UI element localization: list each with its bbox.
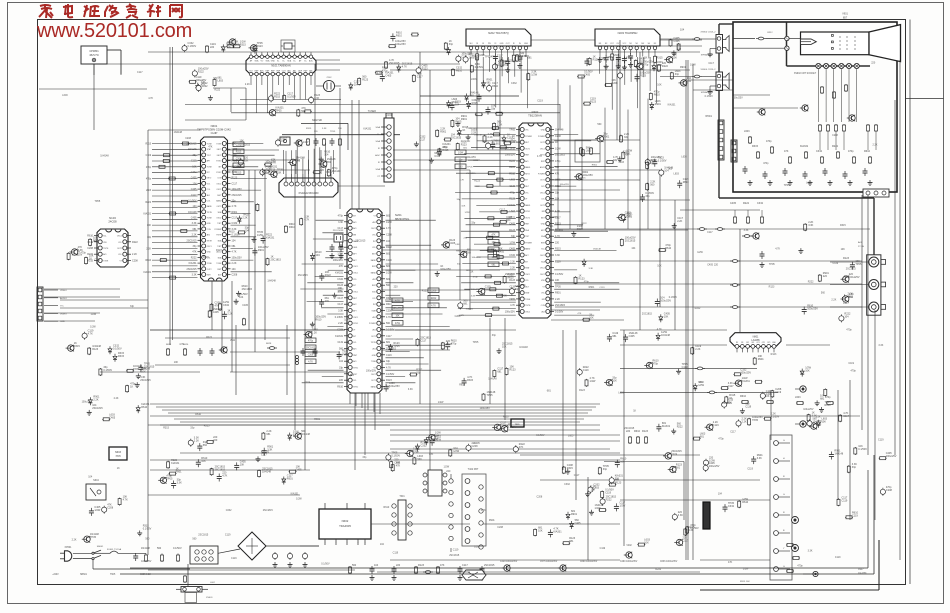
svg-text:1N4148: 1N4148	[429, 438, 438, 441]
svg-text:SB601: SB601	[80, 574, 88, 576]
svg-text:C117: C117	[843, 415, 849, 418]
svg-text:V901: V901	[842, 13, 848, 16]
svg-text:1N4148: 1N4148	[520, 55, 529, 58]
svg-text:C117: C117	[507, 136, 513, 139]
svg-text:C119: C119	[146, 155, 152, 157]
svg-text:C117: C117	[232, 217, 238, 220]
svg-text:TP05: TP05	[90, 536, 97, 539]
svg-text:C117: C117	[261, 453, 267, 456]
svg-text:220: 220	[446, 470, 451, 473]
svg-text:KIA331: KIA331	[742, 380, 751, 383]
svg-text:0.1/50V: 0.1/50V	[536, 434, 545, 437]
svg-text:1/2W: 1/2W	[344, 319, 350, 322]
svg-text:220: 220	[871, 61, 876, 64]
svg-text:R123: R123	[92, 348, 99, 351]
svg-text:OSC1: OSC1	[525, 274, 530, 276]
svg-text:R315: R315	[580, 178, 586, 180]
svg-text:2SC1815: 2SC1815	[722, 402, 733, 405]
svg-text:0.1/50V: 0.1/50V	[555, 311, 564, 314]
svg-text:AV2: AV2	[373, 221, 376, 224]
svg-text:BAND: BAND	[216, 200, 222, 203]
svg-text:33p: 33p	[491, 108, 496, 111]
svg-text:TP05: TP05	[330, 131, 336, 133]
svg-text:470p: 470p	[650, 162, 656, 165]
svg-text:47K: 47K	[728, 561, 733, 564]
svg-text:C208: C208	[832, 134, 838, 137]
svg-text:KIA331: KIA331	[800, 145, 809, 148]
svg-text:N203 TDA8359J: N203 TDA8359J	[618, 31, 638, 35]
svg-text:470p: 470p	[308, 341, 314, 343]
svg-text:KIA331: KIA331	[143, 213, 151, 216]
svg-text:2SC1815: 2SC1815	[498, 64, 509, 67]
svg-text:C405: C405	[584, 74, 591, 77]
svg-text:OSC1: OSC1	[540, 192, 545, 194]
svg-text:TR/TE: TR/TE	[207, 240, 213, 242]
svg-text:Z201 503F: Z201 503F	[333, 230, 344, 232]
svg-text:2SC1815: 2SC1815	[232, 194, 243, 197]
svg-text:R610: R610	[492, 85, 499, 88]
svg-text:2SC1815: 2SC1815	[242, 288, 253, 291]
svg-text:POWER: POWER	[525, 243, 532, 245]
svg-text:SCL: SCL	[541, 249, 545, 251]
svg-text:TONE: TONE	[103, 261, 109, 263]
svg-text:OSC1: OSC1	[540, 148, 545, 150]
svg-text:100u/25V: 100u/25V	[265, 161, 276, 164]
svg-text:2.2K: 2.2K	[93, 398, 98, 401]
svg-text:100u/25V: 100u/25V	[232, 188, 243, 191]
svg-text:R901: R901	[489, 519, 495, 522]
svg-text:1/2W: 1/2W	[90, 326, 96, 329]
svg-text:2.2K: 2.2K	[192, 234, 197, 237]
svg-text:1/2W: 1/2W	[590, 380, 596, 383]
svg-text:R315: R315	[306, 128, 312, 130]
svg-text:560: 560	[668, 168, 673, 171]
svg-text:R610: R610	[665, 247, 672, 250]
svg-text:LA4285: LA4285	[751, 339, 760, 342]
svg-text:3.3K: 3.3K	[342, 352, 347, 355]
svg-text:100u/25V: 100u/25V	[395, 43, 406, 46]
svg-text:33p: 33p	[613, 159, 618, 162]
svg-text:L603: L603	[62, 94, 68, 97]
svg-text:KIA331: KIA331	[291, 492, 300, 495]
svg-text:R315: R315	[386, 297, 392, 300]
svg-text:AGC: AGC	[309, 60, 314, 63]
svg-text:KIA331: KIA331	[553, 530, 562, 533]
svg-text:VOL: VOL	[372, 235, 376, 237]
svg-text:560: 560	[849, 296, 854, 299]
svg-text:OUT1: OUT1	[371, 336, 376, 338]
svg-text:4.7K: 4.7K	[657, 328, 662, 331]
svg-text:560: 560	[192, 537, 197, 540]
svg-text:R315: R315	[657, 56, 664, 59]
svg-text:R315: R315	[146, 144, 152, 146]
svg-text:R610: R610	[384, 506, 390, 509]
svg-text:104: 104	[281, 140, 286, 143]
svg-text:4.7K: 4.7K	[431, 306, 436, 308]
svg-text:SYNC: SYNC	[525, 211, 531, 213]
svg-text:AV1: AV1	[353, 360, 356, 363]
svg-text:C119: C119	[745, 405, 751, 408]
svg-text:220: 220	[626, 430, 631, 433]
svg-text:0.1/50V: 0.1/50V	[103, 369, 112, 372]
svg-text:3.3K: 3.3K	[192, 222, 197, 225]
svg-text:1/2W: 1/2W	[94, 509, 100, 512]
svg-text:SYNC: SYNC	[216, 172, 222, 174]
svg-text:104: 104	[232, 268, 237, 271]
svg-text:AV1: AV1	[353, 221, 356, 224]
svg-text:0.1/50V: 0.1/50V	[335, 316, 344, 319]
svg-text:104: 104	[631, 247, 636, 250]
svg-text:4.7K: 4.7K	[395, 301, 400, 303]
svg-text:ADC0: ADC0	[540, 166, 545, 169]
svg-text:470p: 470p	[338, 215, 344, 218]
svg-text:1K: 1K	[644, 57, 647, 60]
svg-text:C917: C917	[858, 569, 864, 571]
svg-text:100u/25V: 100u/25V	[582, 174, 593, 177]
svg-text:33p: 33p	[416, 372, 421, 375]
svg-text:GND: GND	[271, 61, 276, 63]
svg-text:R901: R901	[571, 513, 578, 516]
svg-text:R222: R222	[677, 426, 684, 429]
svg-text:C405: C405	[629, 335, 636, 338]
svg-text:3.3K: 3.3K	[471, 296, 476, 298]
svg-text:APC: APC	[260, 70, 265, 73]
svg-text:OP1: OP1	[762, 342, 765, 344]
svg-text:L603: L603	[618, 392, 624, 395]
svg-text:1K: 1K	[470, 271, 473, 274]
svg-text:KIA331: KIA331	[662, 425, 671, 428]
svg-text:AV2: AV2	[373, 278, 376, 281]
svg-text:TP05: TP05	[95, 200, 101, 203]
svg-text:TR/TE: TR/TE	[371, 342, 377, 344]
svg-text:C332: C332	[509, 254, 515, 257]
svg-text:560: 560	[352, 564, 357, 567]
svg-text:2.2K: 2.2K	[72, 538, 77, 541]
svg-text:C405: C405	[474, 442, 480, 445]
svg-text:560: 560	[467, 252, 472, 255]
svg-text:OUT2: OUT2	[540, 142, 545, 144]
svg-text:2SC1815: 2SC1815	[389, 62, 400, 65]
svg-text:R123: R123	[769, 285, 775, 288]
svg-text:4.7K: 4.7K	[386, 316, 391, 319]
svg-text:47K: 47K	[491, 235, 496, 237]
svg-text:R315: R315	[274, 95, 281, 98]
svg-text:RF: RF	[741, 342, 743, 344]
svg-text:N102 SIF: N102 SIF	[312, 119, 323, 122]
svg-text:10K: 10K	[538, 529, 543, 532]
svg-text:PW: PW	[488, 43, 491, 45]
svg-text:C332: C332	[236, 145, 242, 147]
svg-text:R915 10K: R915 10K	[740, 581, 750, 583]
svg-text:R901: R901	[287, 478, 294, 481]
svg-text:1/2W: 1/2W	[386, 272, 392, 275]
svg-text:SYNC: SYNC	[353, 323, 359, 325]
svg-text:~220V: ~220V	[52, 574, 59, 576]
svg-text:TB1238AN: TB1238AN	[528, 113, 542, 117]
svg-text:47K: 47K	[208, 146, 213, 149]
svg-text:2.2K: 2.2K	[312, 332, 317, 335]
svg-text:R222: R222	[386, 246, 392, 249]
svg-text:0.1/50V: 0.1/50V	[550, 216, 559, 219]
svg-text:V402: V402	[626, 545, 632, 547]
svg-text:1/2W: 1/2W	[257, 234, 263, 237]
svg-text:COL: COL	[207, 189, 211, 191]
svg-text:L603: L603	[218, 80, 224, 83]
svg-text:560: 560	[650, 184, 655, 187]
svg-text:C405: C405	[394, 462, 401, 465]
svg-text:C208: C208	[94, 258, 100, 261]
svg-text:OSC1: OSC1	[207, 246, 212, 248]
svg-text:47K: 47K	[396, 465, 401, 468]
svg-text:2SC1815: 2SC1815	[198, 533, 209, 536]
svg-text:10K: 10K	[147, 225, 152, 227]
svg-text:1N4148: 1N4148	[519, 346, 528, 349]
svg-text:100u/25V: 100u/25V	[560, 184, 570, 186]
svg-text:0.1/50V: 0.1/50V	[771, 416, 780, 419]
svg-text:OUT2: OUT2	[217, 206, 222, 208]
svg-text:2.2K: 2.2K	[816, 415, 821, 418]
svg-text:C117: C117	[462, 564, 468, 567]
svg-text:104: 104	[435, 435, 440, 438]
svg-text:R610: R610	[503, 415, 509, 418]
svg-text:ABL: ABL	[287, 70, 291, 73]
svg-text:R123: R123	[422, 290, 428, 293]
svg-text:C117: C117	[191, 194, 197, 197]
svg-text:R222: R222	[146, 202, 152, 204]
svg-text:681: 681	[497, 371, 502, 374]
svg-text:470p: 470p	[382, 70, 388, 73]
svg-text:C208: C208	[232, 274, 238, 277]
svg-text:104: 104	[374, 564, 379, 567]
svg-text:681: 681	[232, 245, 237, 248]
svg-text:560: 560	[296, 159, 301, 162]
svg-text:R123: R123	[642, 430, 649, 433]
svg-text:C405: C405	[296, 469, 303, 472]
svg-text:681: 681	[569, 540, 574, 543]
svg-text:C405: C405	[730, 202, 737, 205]
svg-text:C117: C117	[419, 139, 425, 142]
svg-text:R901: R901	[326, 171, 332, 174]
svg-text:XS904 CXD1-2: XS904 CXD1-2	[701, 69, 717, 71]
svg-text:R901: R901	[548, 225, 554, 228]
svg-text:47K: 47K	[460, 315, 464, 317]
svg-text:2.2K: 2.2K	[831, 299, 836, 302]
svg-text:ABL: ABL	[293, 70, 297, 73]
svg-text:SPEAKER R: SPEAKER R	[701, 54, 714, 57]
svg-text:2SC1815: 2SC1815	[140, 379, 151, 382]
svg-text:C332: C332	[223, 304, 230, 307]
svg-text:C405: C405	[385, 75, 392, 78]
svg-text:R222: R222	[206, 336, 212, 339]
svg-text:1N4148: 1N4148	[661, 334, 670, 337]
svg-text:R901: R901	[176, 471, 183, 474]
svg-text:10K: 10K	[805, 370, 810, 373]
svg-text:TP05: TP05	[784, 184, 790, 187]
svg-text:100u/25V: 100u/25V	[849, 276, 860, 279]
svg-text:470p: 470p	[473, 276, 479, 278]
svg-text:BAND: BAND	[525, 166, 531, 169]
svg-text:XS904 CXD1-2: XS904 CXD1-2	[701, 32, 717, 34]
svg-text:C119: C119	[337, 341, 343, 344]
svg-text:AV2: AV2	[373, 316, 376, 319]
svg-text:OSC2: OSC2	[371, 228, 376, 230]
svg-text:COL: COL	[207, 201, 211, 203]
svg-text:104: 104	[232, 239, 237, 242]
svg-text:AV2: AV2	[218, 274, 221, 277]
svg-text:1N4148: 1N4148	[593, 249, 601, 251]
svg-text:SYNC: SYNC	[353, 387, 359, 389]
svg-text:1N4148: 1N4148	[488, 377, 497, 380]
svg-text:4.7K: 4.7K	[510, 304, 515, 307]
svg-text:1N4148: 1N4148	[301, 433, 310, 436]
svg-text:XP901: XP901	[705, 116, 713, 118]
svg-text:C208: C208	[386, 310, 392, 313]
svg-text:220: 220	[555, 242, 560, 245]
svg-text:2.2K: 2.2K	[695, 348, 700, 351]
svg-text:C332: C332	[226, 509, 232, 512]
svg-text:TP05: TP05	[394, 345, 401, 348]
svg-text:N602: N602	[342, 519, 349, 523]
svg-text:C332: C332	[757, 202, 764, 205]
svg-text:L603: L603	[471, 78, 477, 81]
svg-text:0.1/50V: 0.1/50V	[690, 527, 699, 530]
svg-text:2.2K: 2.2K	[245, 83, 250, 86]
svg-text:VOL: VOL	[353, 279, 357, 281]
svg-text:TR/TE: TR/TE	[103, 248, 109, 250]
svg-text:R222: R222	[132, 241, 138, 244]
svg-text:470p: 470p	[146, 167, 152, 169]
svg-text:560: 560	[157, 547, 162, 550]
svg-text:C405: C405	[109, 416, 116, 419]
svg-text:COL: COL	[372, 298, 376, 300]
svg-text:C117: C117	[137, 71, 143, 74]
svg-text:100u/25V: 100u/25V	[389, 385, 400, 388]
svg-text:R610: R610	[337, 386, 343, 389]
svg-text:R123: R123	[640, 75, 647, 78]
svg-text:C119: C119	[304, 381, 310, 384]
svg-text:C119: C119	[386, 354, 392, 357]
svg-text:10K: 10K	[277, 171, 282, 174]
svg-text:R315: R315	[467, 379, 474, 382]
svg-text:2.2K: 2.2K	[510, 267, 515, 270]
svg-text:C119: C119	[848, 362, 854, 365]
svg-text:33p: 33p	[492, 334, 497, 337]
svg-text:4.7K: 4.7K	[386, 367, 391, 370]
svg-text:AV2: AV2	[207, 234, 210, 237]
svg-text:R610: R610	[864, 150, 871, 153]
svg-text:C117: C117	[708, 62, 714, 65]
svg-text:C405: C405	[501, 294, 507, 297]
svg-text:GND: GND	[207, 223, 212, 225]
svg-text:100u/25V: 100u/25V	[82, 401, 93, 404]
svg-text:33p: 33p	[603, 468, 608, 471]
svg-text:L603: L603	[586, 150, 592, 153]
svg-text:OSC1: OSC1	[216, 183, 221, 185]
svg-text:C332: C332	[485, 289, 492, 292]
svg-text:R123: R123	[216, 249, 222, 252]
svg-text:CHIP: CHIP	[211, 131, 218, 135]
svg-text:R123: R123	[843, 257, 850, 260]
svg-text:C605 0.22: C605 0.22	[140, 574, 151, 576]
svg-text:C117: C117	[232, 182, 238, 185]
svg-text:POWER: POWER	[215, 229, 222, 231]
svg-text:1/2W: 1/2W	[303, 141, 309, 144]
svg-text:L603: L603	[806, 182, 812, 185]
svg-text:100u/25V: 100u/25V	[505, 311, 516, 314]
svg-text:SDA: SDA	[376, 168, 381, 171]
svg-text:10K: 10K	[841, 248, 846, 251]
svg-text:470p: 470p	[718, 437, 724, 440]
svg-text:R901: R901	[461, 118, 468, 121]
svg-text:47K: 47K	[519, 446, 524, 449]
svg-text:220: 220	[339, 379, 344, 382]
svg-text:BAND: BAND	[525, 204, 531, 207]
svg-text:R901: R901	[141, 368, 147, 371]
svg-text:681: 681	[820, 397, 825, 400]
svg-text:0.1/50V: 0.1/50V	[321, 563, 330, 566]
svg-text:VOL: VOL	[525, 130, 529, 132]
svg-text:100u/25V: 100u/25V	[232, 256, 243, 259]
svg-text:33p: 33p	[675, 73, 680, 76]
svg-text:ABL: ABL	[309, 70, 313, 73]
svg-text:C117: C117	[386, 335, 392, 338]
svg-text:100u/25V: 100u/25V	[480, 407, 491, 410]
svg-text:33p: 33p	[190, 427, 195, 430]
svg-text:R123: R123	[590, 101, 597, 104]
svg-text:1/2W: 1/2W	[531, 74, 537, 77]
svg-text:C208: C208	[537, 495, 543, 498]
svg-text:TP05: TP05	[855, 263, 862, 266]
svg-text:47K: 47K	[784, 150, 789, 153]
svg-text:SCL: SCL	[353, 380, 357, 382]
svg-text:C332: C332	[816, 150, 823, 153]
svg-text:C119: C119	[878, 438, 884, 441]
svg-text:1K: 1K	[462, 129, 465, 132]
svg-text:220: 220	[509, 59, 514, 62]
svg-text:3.3K: 3.3K	[555, 254, 560, 257]
svg-text:GND: GND	[372, 355, 377, 357]
svg-text:SYNC: SYNC	[216, 161, 222, 163]
svg-text:10K: 10K	[174, 361, 179, 364]
svg-text:1K: 1K	[117, 467, 120, 470]
svg-text:TP05: TP05	[769, 263, 775, 266]
svg-text:2.2K: 2.2K	[242, 217, 247, 220]
svg-text:C208: C208	[107, 507, 114, 510]
svg-text:L603: L603	[349, 374, 355, 377]
svg-text:TP05: TP05	[467, 167, 473, 169]
svg-text:1/2W: 1/2W	[697, 251, 703, 254]
svg-text:100u/25V: 100u/25V	[733, 96, 744, 99]
svg-text:R315: R315	[203, 256, 209, 259]
svg-text:TP05: TP05	[276, 110, 283, 113]
svg-text:0.1/50V: 0.1/50V	[508, 426, 517, 429]
svg-text:2.2K: 2.2K	[488, 136, 493, 139]
svg-text:C405: C405	[242, 304, 248, 307]
svg-text:R610: R610	[456, 69, 463, 72]
svg-text:IN2: IN2	[746, 342, 749, 344]
svg-text:3.3K: 3.3K	[678, 514, 683, 517]
svg-text:L603: L603	[674, 172, 680, 175]
svg-text:104: 104	[339, 360, 344, 363]
svg-text:R315: R315	[567, 467, 574, 470]
svg-text:VOL: VOL	[541, 293, 545, 295]
svg-text:OUT1: OUT1	[525, 148, 530, 150]
svg-text:1/2W: 1/2W	[698, 384, 704, 387]
svg-text:3.3K: 3.3K	[808, 550, 813, 553]
svg-text:TP05: TP05	[509, 129, 515, 132]
svg-text:OSC1: OSC1	[117, 236, 122, 238]
svg-text:AV1: AV1	[373, 329, 376, 332]
